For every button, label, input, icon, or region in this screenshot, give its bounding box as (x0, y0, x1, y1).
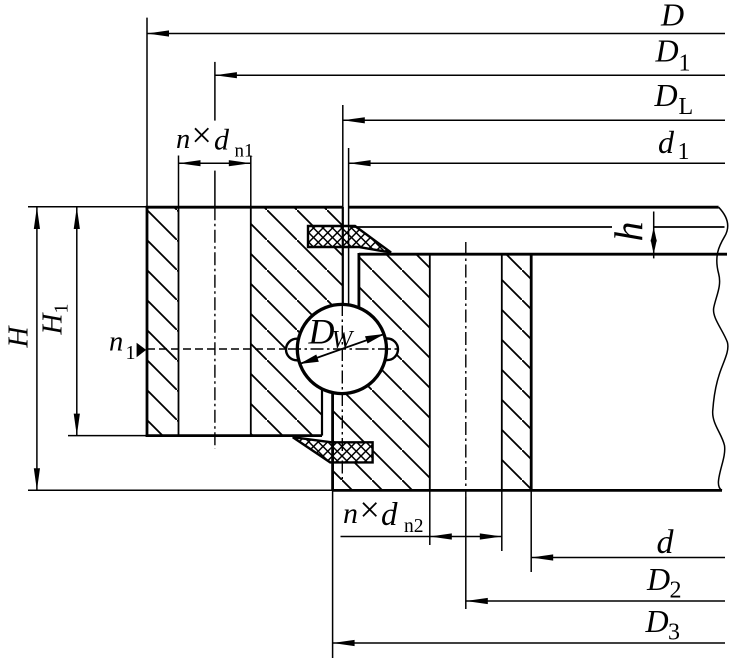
dimension line DL (343, 119, 725, 121)
dimension line d1 (349, 162, 725, 164)
bolt hole n x dn1 in left ring (white) (179, 206, 251, 437)
svg-text:n2: n2 (404, 516, 424, 537)
bottom line thin part (H extension) (28, 489, 333, 491)
left ring (outer ring) hatched section (147, 207, 343, 435)
left raceway ear (286, 339, 308, 361)
svg-text:W: W (332, 327, 355, 354)
svg-text:h: h (606, 222, 651, 242)
svg-text:3: 3 (668, 620, 680, 646)
left ring right edge below ball (321, 390, 323, 436)
dimension line D (147, 33, 725, 35)
svg-text:2: 2 (670, 577, 682, 603)
extension line d (below) (530, 490, 532, 572)
dimension d (531, 557, 725, 559)
svg-text:d: d (658, 124, 675, 160)
svg-text:n: n (109, 327, 123, 358)
right ring right edge (530, 253, 533, 490)
extension line D3 (below) (332, 490, 334, 658)
dimension D3 (333, 642, 725, 644)
break line (wavy) (713, 207, 728, 490)
svg-text:1: 1 (126, 342, 136, 364)
svg-text:n: n (343, 497, 358, 530)
svg-text:n: n (176, 124, 190, 155)
extension line DL (vertical) (342, 105, 344, 207)
right raceway ear (376, 339, 398, 361)
extension line n x dn2 left (below) (429, 490, 431, 545)
ball (297, 304, 386, 393)
bottom line thick part (333, 489, 722, 492)
dimension n x dn1 (179, 162, 251, 164)
dimension n x dn2 (341, 536, 502, 538)
svg-text:×: × (360, 490, 380, 530)
extension line D1 upper (214, 62, 216, 121)
upper seal (cross-hatched) (308, 226, 391, 253)
right ring left edge above ball (357, 253, 360, 308)
right ring (inner ring) hatched section (333, 254, 532, 490)
extension line n x dn1 left (178, 156, 180, 208)
svg-text:D: D (308, 312, 335, 352)
extension line D2 (below) (465, 497, 467, 609)
dimension h (653, 212, 655, 259)
ball horizontal centerline (288, 348, 397, 350)
gap edge left ring right side above ball (342, 207, 344, 304)
left ring top edge (146, 206, 343, 209)
hole dn1 left edge (178, 207, 180, 435)
top plate top edge (349, 206, 719, 209)
n1 arrow (137, 343, 147, 358)
svg-text:D: D (660, 0, 684, 33)
extension line n x dn1 right (250, 156, 252, 208)
svg-text:d: d (214, 124, 230, 157)
svg-text:L: L (679, 94, 694, 120)
dimension H (36, 207, 38, 490)
H1 bottom extension line (68, 435, 147, 437)
dimension H1 (76, 207, 78, 436)
svg-text:D: D (655, 33, 679, 69)
ball vertical centerline (341, 303, 343, 480)
extension line d1 (vertical) (348, 148, 350, 304)
extension line D1 lower (214, 171, 216, 207)
hole dn2 left edge (429, 254, 431, 490)
lower seal (cross-hatched) (293, 437, 373, 462)
hole dn2 centerline (465, 242, 467, 497)
H top extension line (28, 206, 147, 208)
bolt hole n x dn2 in right ring (white) (430, 253, 502, 492)
left ring bottom edge (146, 434, 322, 437)
hole dn1 right edge (250, 207, 252, 435)
extension line D (146, 18, 148, 206)
right ring top edge / step line (359, 253, 727, 256)
svg-text:D: D (646, 561, 670, 597)
top plate middle line left part (351, 226, 612, 228)
svg-text:×: × (192, 115, 212, 155)
svg-text:D: D (645, 603, 669, 639)
left ring outline: left edge (146, 206, 149, 437)
Dw dimension arrow (299, 334, 384, 364)
svg-text:H: H (3, 325, 35, 349)
hole dn1 centerline (214, 207, 216, 449)
svg-text:d: d (381, 497, 398, 533)
dimension line D1 (215, 74, 725, 76)
svg-text:n1: n1 (235, 141, 254, 162)
dimension D2 (466, 600, 725, 602)
svg-text:1: 1 (678, 139, 690, 165)
hole dn2 right edge (501, 254, 503, 490)
n1 hidden line (147, 348, 291, 350)
svg-text:1: 1 (679, 51, 691, 77)
extension line n x dn2 right (below) (501, 490, 503, 551)
svg-text:D: D (654, 77, 678, 113)
top plate middle line right part (654, 226, 725, 228)
svg-text:d: d (657, 524, 675, 561)
right ring left edge below ball (331, 393, 334, 490)
